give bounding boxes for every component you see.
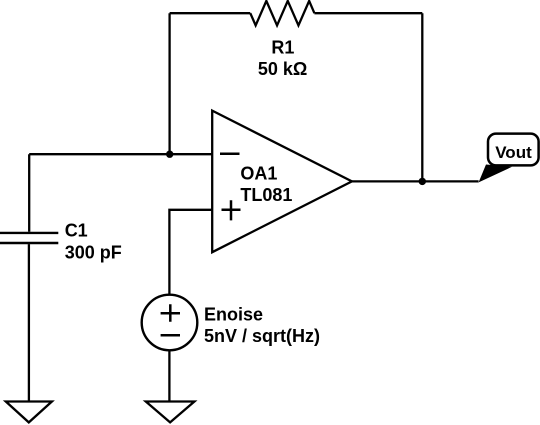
wire: C1 bottom lead [28, 244, 30, 401]
wire: top-left segment to R1 [170, 12, 251, 14]
ground (below Enoise) [146, 402, 195, 423]
capacitor C1 [0, 233, 58, 243]
junction: inverting input node [166, 151, 173, 158]
wire: input node horizontal to inverting input [29, 153, 212, 155]
junction: output node [419, 178, 426, 185]
net label Vout pointer tail [479, 165, 512, 183]
wire: op-amp output [352, 180, 479, 182]
wire: Enoise bottom lead [168, 350, 170, 401]
wire: feedback right vertical [421, 13, 423, 181]
Enoise plus marker [161, 304, 180, 322]
svg-text:5nV / sqrt(Hz): 5nV / sqrt(Hz) [204, 326, 320, 346]
op-amp OA1 [212, 111, 352, 253]
wire: top-right segment from R1 [314, 12, 422, 14]
svg-text:R1: R1 [271, 37, 294, 57]
svg-text:C1: C1 [65, 221, 88, 241]
ground (below C1) [6, 402, 52, 423]
Enoise minus marker [161, 334, 180, 337]
net label Vout box [488, 134, 539, 166]
wire: feedback loop left vertical [168, 13, 170, 154]
svg-text:Enoise: Enoise [204, 304, 263, 324]
svg-text:OA1: OA1 [240, 163, 277, 183]
wire: non-inverting input to Enoise [169, 210, 212, 295]
svg-text:TL081: TL081 [240, 185, 292, 205]
resistor R1 [250, 1, 314, 26]
svg-text:Vout: Vout [495, 143, 532, 162]
svg-text:300 pF: 300 pF [65, 243, 122, 263]
op-amp non-inverting input plus marker [222, 200, 241, 220]
svg-text:50 kΩ: 50 kΩ [258, 59, 307, 79]
op-amp inverting input minus marker [220, 152, 240, 155]
voltage source Enoise [142, 295, 198, 351]
wire: C1 top lead [28, 154, 30, 232]
